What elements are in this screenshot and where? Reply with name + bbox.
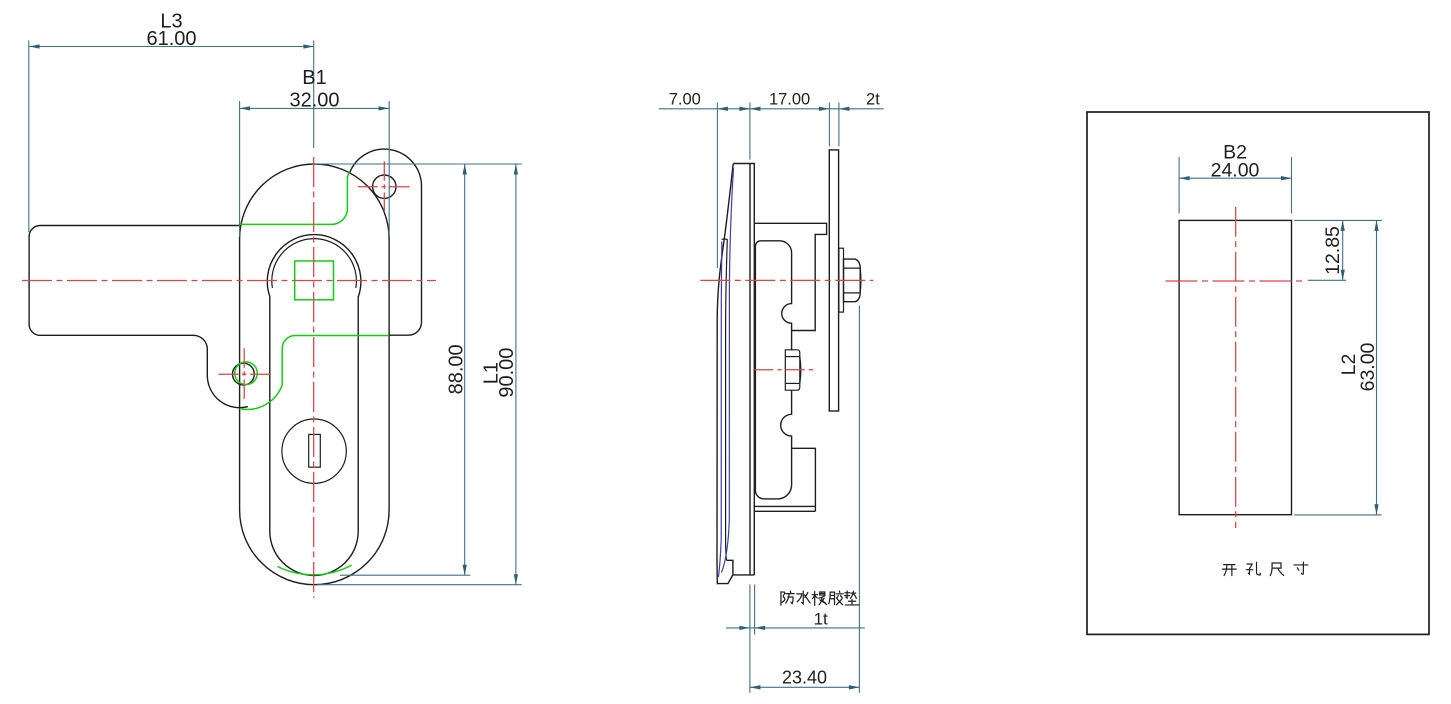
lock cylinder circle: [282, 419, 346, 483]
rubber gasket front curve (blue): [718, 242, 721, 578]
lower mounting hole: [233, 363, 255, 385]
dim B2 extension lines: [1178, 157, 1180, 214]
cutout centerline vertical (red): [1235, 207, 1237, 528]
dim B1 line: [240, 107, 390, 109]
dim L2 line: [1376, 220, 1378, 514]
housing outline: [754, 223, 826, 330]
lower hole crosshair horizontal (red): [218, 373, 270, 375]
svg-text:1t: 1t: [814, 610, 828, 629]
svg-text:63.00: 63.00: [1357, 342, 1379, 391]
dim B1 extension lines: [239, 101, 241, 237]
svg-text:88.00: 88.00: [445, 344, 467, 394]
cam upper outline: [755, 241, 791, 350]
handle recess top inner arc: [272, 239, 357, 288]
handle recess stadium: [270, 296, 358, 576]
latch arm (tongue): [29, 226, 248, 408]
dim 12.85 line: [1342, 220, 1344, 280]
dim 88.00 line: [464, 164, 466, 575]
handle recess top outer arc: [267, 235, 361, 297]
caption: opening hole dimensions: [1222, 565, 1236, 576]
svg-text:90.00: 90.00: [496, 348, 518, 398]
ear hole crosshair vertical (red): [383, 161, 385, 212]
border frame: [1087, 112, 1429, 634]
gasket hidden outline top (green): [240, 172, 350, 224]
top dim line: [659, 108, 884, 110]
key slot: [309, 434, 321, 467]
cap top edge: [733, 163, 755, 165]
rubber gasket label (waterproof rubber pad): [781, 591, 794, 605]
dim L3 line: [29, 46, 314, 48]
dim L2 extension line bottom: [1294, 514, 1381, 516]
dim 23.40 line: [750, 686, 860, 688]
centerline vertical (red): [313, 157, 315, 598]
face plate front: [749, 164, 751, 575]
dim L1 90.00 line: [515, 164, 517, 585]
centerline horizontal (red): [22, 280, 436, 282]
bottom dims extension lines: [749, 585, 751, 693]
panel (2t): [829, 150, 838, 411]
gasket hole circle (green): [235, 362, 258, 385]
lower housing block: [792, 448, 816, 506]
ear mounting hole: [373, 175, 396, 198]
foot notch: [727, 560, 755, 575]
cam lower outline: [755, 247, 791, 499]
gasket bottom arc (green): [278, 565, 352, 575]
shaft nut (small): [785, 350, 800, 390]
svg-text:12.85: 12.85: [1322, 226, 1344, 275]
svg-text:2t: 2t: [866, 91, 880, 109]
cap rear face curve: [722, 238, 728, 240]
dim L3 extension lines: [28, 41, 30, 233]
face plate rear: [753, 164, 755, 575]
dim 88/90 extension lines: [313, 163, 522, 165]
square spindle hole (green): [295, 261, 334, 300]
gasket rear edge: [726, 239, 728, 560]
gasket hidden outline right (green): [240, 336, 389, 410]
svg-text:24.00: 24.00: [1211, 159, 1260, 181]
lower hole crosshair vertical (red): [243, 348, 245, 399]
svg-text:7.00: 7.00: [669, 91, 701, 109]
dim 12.85 extension lines: [1294, 219, 1382, 221]
svg-text:23.40: 23.40: [782, 668, 827, 688]
svg-text:B1: B1: [302, 67, 326, 89]
washer flange: [839, 248, 844, 312]
centerline main (red): [700, 279, 873, 281]
cutout centerline horizontal (red): [1166, 280, 1307, 282]
svg-text:61.00: 61.00: [146, 28, 196, 50]
mounting ear lobe (top-right): [350, 149, 422, 335]
body outline (stadium head): [240, 164, 390, 585]
ear hole crosshair horizontal (red): [358, 186, 410, 188]
top dims extension lines: [716, 103, 718, 269]
svg-text:17.00: 17.00: [769, 91, 810, 109]
cap dome profile and bottom foot: [717, 164, 733, 584]
dim B2 line: [1179, 177, 1291, 179]
centerline shaft (red): [754, 369, 816, 371]
rubber gasket rear curve (blue): [722, 168, 734, 573]
svg-text:32.00: 32.00: [289, 90, 339, 112]
hex nut (big): [844, 259, 861, 302]
dim 1t line: [726, 627, 865, 629]
cutout rectangle: [1179, 220, 1291, 514]
